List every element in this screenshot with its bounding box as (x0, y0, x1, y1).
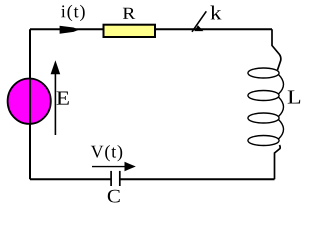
wire bottom horizontal right of capacitor (121, 178, 275, 180)
wire left vertical (29, 29, 31, 179)
inductor L coil loop 4 (248, 136, 279, 146)
wire coil exit to bottom-right corner (275, 145, 281, 179)
label V(t) (91, 145, 122, 161)
EMF arrow line (54, 73, 56, 135)
label k (210, 6, 221, 20)
label L (288, 90, 301, 103)
V(t) reference line (92, 166, 126, 168)
switch k contact arrowhead (194, 25, 203, 31)
inductor L coil loop 2 (248, 91, 279, 101)
coil connector loop2-loop3 (279, 97, 284, 117)
capacitor C left plate (110, 171, 112, 186)
EMF arrow head (51, 60, 61, 74)
label R (123, 8, 135, 19)
label i(t) (61, 5, 85, 21)
resistor R body (104, 25, 156, 37)
coil connector loop1-loop2 (279, 75, 284, 95)
label C (108, 190, 120, 203)
inductor L coil loop 3 (248, 113, 279, 123)
switch k blade (192, 11, 206, 32)
coil connector loop3-loop4 (279, 120, 284, 140)
inductor L coil loop 1 (248, 68, 279, 78)
wire bottom horizontal left of capacitor (30, 178, 111, 180)
wire top horizontal (30, 28, 272, 30)
wire top-right corner down to coil entry (272, 29, 281, 70)
label E (57, 92, 69, 105)
current arrow head i(t) (60, 26, 79, 34)
V(t) reference arrow head (125, 162, 136, 171)
capacitor C right plate (119, 171, 121, 186)
voltage source E (magenta circle) (8, 79, 51, 124)
